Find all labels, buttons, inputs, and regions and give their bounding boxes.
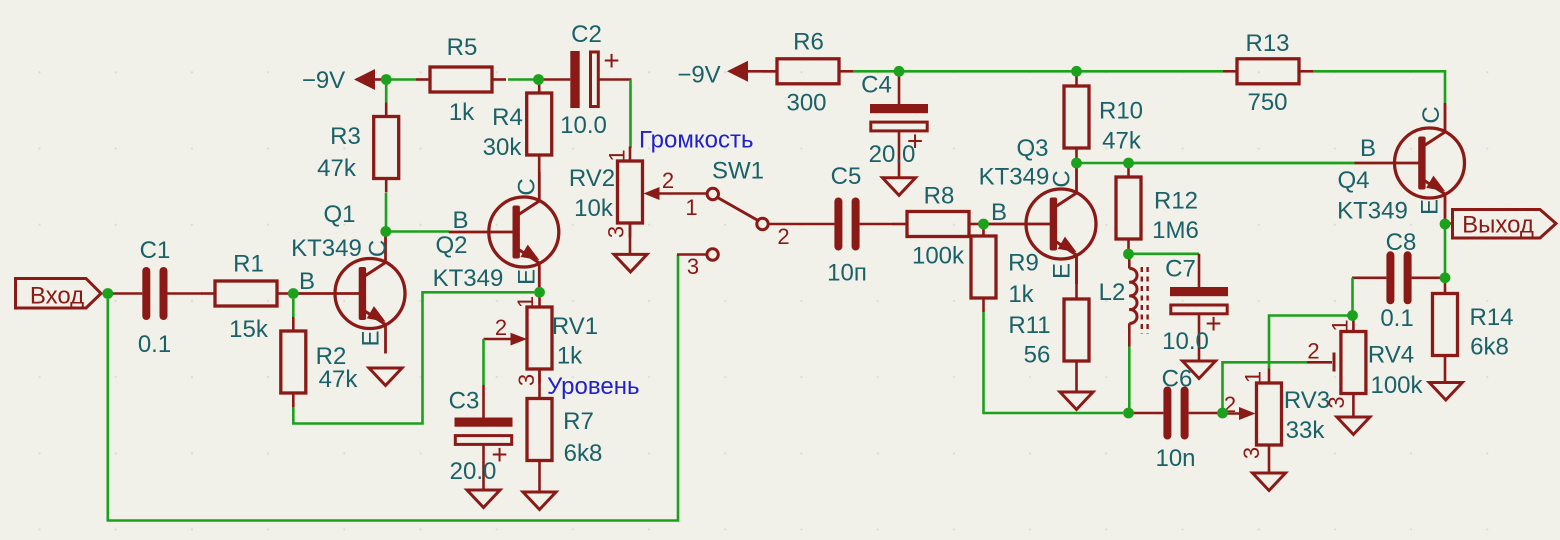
resistor R6 [763,70,777,73]
junction C4 rail [894,66,905,77]
wire L2 bottom [1128,347,1131,414]
svg-text:30k: 30k [483,134,523,161]
svg-text:56: 56 [1024,342,1051,369]
junction C6 left node [1123,408,1134,419]
svg-text:100k: 100k [1370,372,1423,399]
junction C6 right node [1217,408,1228,419]
wire R2 bottom to Q2 emitter [293,292,534,423]
wiper RV2 [644,187,660,200]
wire R2 top [292,299,295,317]
svg-text:33k: 33k [1286,417,1326,444]
svg-text:Q4: Q4 [1337,167,1369,194]
svg-text:C: C [1418,106,1445,123]
svg-text:3: 3 [687,254,699,279]
svg-text:6k8: 6k8 [1470,334,1509,361]
svg-text:20.0: 20.0 [450,458,497,485]
svg-text:6k8: 6k8 [564,440,603,467]
svg-text:1: 1 [685,195,697,220]
svg-text:10k: 10k [574,195,614,222]
wire Q2 collector to R4 [538,169,541,173]
resistor R12 [1127,163,1130,177]
svg-text:R1: R1 [233,251,264,278]
svg-text:0.1: 0.1 [138,331,171,358]
transistor Q4 [1395,128,1465,198]
svg-text:2: 2 [1307,339,1319,364]
svg-text:E: E [1417,199,1444,215]
potentiometer RV4 [1352,317,1355,332]
svg-text:R6: R6 [793,29,824,56]
svg-text:B: B [991,199,1007,226]
ground R7 [523,492,556,510]
ground R11 [1060,392,1093,410]
ground RV3 [1268,460,1271,474]
wire rail R10 to R13 [1077,70,1224,73]
svg-text:C4: C4 [861,72,892,99]
potentiometer RV1 [538,293,541,308]
resistor R3 [385,103,388,117]
svg-text:R14: R14 [1469,304,1513,331]
wire Q4 emitter down [1444,224,1447,278]
svg-text:RV4: RV4 [1368,342,1414,369]
svg-text:R12: R12 [1154,188,1198,215]
svg-text:KT349: KT349 [979,164,1050,191]
svg-text:3: 3 [1239,447,1264,459]
svg-text:R7: R7 [563,408,594,435]
potentiometer RV2 [629,147,632,162]
svg-text:RV2: RV2 [569,165,615,192]
capacitor C5 [800,223,834,226]
svg-text:20.0: 20.0 [869,141,916,168]
wire -9V to R5 [386,78,416,81]
svg-text:1k: 1k [449,99,475,126]
svg-text:B: B [1360,135,1376,162]
wire R9 bottom to C6 node [984,312,1124,413]
ground R14 [1429,383,1462,401]
junction node B Q1 [288,288,299,299]
junction Q2 emitter node [534,287,545,298]
wire R6 to C4 node [853,70,899,73]
svg-text:+: + [603,45,619,76]
svg-text:R4: R4 [492,104,523,131]
svg-text:3: 3 [514,374,539,386]
wire R5 to C2 node [508,78,539,81]
resistor R13 [1223,70,1237,73]
capacitor C7 [1198,254,1201,287]
wire C2 to RV2 [629,80,632,149]
wire R3 bottom [385,193,388,232]
resistor R8 [893,223,907,226]
svg-text:10.0: 10.0 [1162,328,1209,355]
global label Выход [1445,222,1453,225]
svg-text:10.0: 10.0 [560,112,607,139]
svg-text:−9V: −9V [677,62,720,89]
svg-text:3: 3 [1324,396,1349,408]
svg-text:KT349: KT349 [433,265,504,292]
potentiometer RV3 [1268,369,1271,384]
resistor R10 [1075,72,1078,86]
transistor Q1 [335,259,405,329]
wire RV1 wiper to C3 [482,339,485,385]
junction RV4 pin1 node [1347,310,1358,321]
ground Q1 emitter [369,368,402,386]
wire R13 to Q4 collector [1313,71,1445,103]
wiper RV3 [1239,407,1256,420]
svg-text:47k: 47k [319,366,359,393]
transistor Q2 [489,197,559,267]
junction Q4 emitter node [1440,219,1451,230]
svg-text:RV1: RV1 [552,313,598,340]
svg-text:0.1: 0.1 [1380,305,1413,332]
junction R12 bottom [1123,249,1134,260]
svg-text:2: 2 [495,315,507,340]
svg-text:Q2: Q2 [435,232,467,259]
wire input down-left [108,255,678,521]
wire rail to Q4 base green [1129,162,1356,165]
svg-text:47k: 47k [317,155,357,182]
svg-text:1k: 1k [557,343,583,370]
junction Q1 collector [380,226,391,237]
capacitor C4 [898,72,901,105]
svg-text:SW1: SW1 [712,158,764,185]
svg-text:10п: 10п [827,260,867,287]
svg-text:1: 1 [513,296,538,308]
resistor R14 [1444,278,1447,294]
svg-text:1: 1 [1328,319,1353,331]
svg-text:Выход: Выход [1462,212,1534,239]
svg-text:E: E [1049,263,1076,279]
svg-text:Q3: Q3 [1016,135,1048,162]
svg-text:750: 750 [1247,89,1287,116]
capacitor C2 [538,78,571,81]
junction R4 C2 node [533,74,544,85]
svg-text:2: 2 [777,224,789,249]
wire SW1 to C5 [768,223,800,226]
capacitor C3 [482,385,485,418]
ground C4 [898,164,901,178]
junction Q3 collector node [1071,158,1082,169]
svg-text:10n: 10n [1155,445,1195,472]
capacitor C1 [108,292,142,295]
inductor L2 [1128,254,1131,269]
svg-text:−9V: −9V [302,67,345,94]
wire rail C4 to R10 [899,70,1077,73]
svg-text:B: B [299,268,315,295]
resistor R2 [292,317,295,331]
svg-text:C6: C6 [1162,366,1193,393]
svg-text:2: 2 [662,168,674,193]
junction input node [102,288,113,299]
svg-text:C8: C8 [1386,229,1417,256]
svg-text:R5: R5 [447,34,478,61]
svg-text:C7: C7 [1165,256,1196,283]
svg-text:Громкость: Громкость [639,127,753,154]
svg-text:300: 300 [786,90,826,117]
svg-text:47k: 47k [1102,128,1142,155]
svg-text:1: 1 [605,149,630,161]
svg-text:E: E [514,269,541,285]
wiper RV1 [511,333,528,346]
ground RV4 [1352,408,1355,417]
resistor R9 [982,224,985,236]
wire C8 left down [1351,278,1354,316]
wire R12 bottom to C7 [1129,253,1200,256]
svg-text:R3: R3 [330,123,361,150]
resistor R4 [538,79,541,93]
transistor Q3 [1026,189,1096,259]
svg-text:R8: R8 [924,183,955,210]
svg-text:C3: C3 [449,388,480,415]
ground C3 [482,477,485,490]
svg-text:C2: C2 [571,21,602,48]
global label Вход [16,279,102,309]
resistor R5 [416,78,430,81]
wire Q1 collector to Q2 base [386,230,449,233]
wire Q3 collector rail to Q4 base [1077,162,1356,165]
svg-text:3: 3 [604,226,629,238]
junction Q3 base node [978,219,989,230]
ground C7 [1183,361,1216,379]
wire R3 top [385,80,388,103]
capacitor C6 [1129,412,1163,415]
resistor R7 [538,369,541,399]
junction C8 right node [1440,272,1451,283]
svg-text:Вход: Вход [30,283,84,310]
svg-text:R9: R9 [1008,250,1039,277]
junction R12 top [1123,158,1134,169]
svg-text:KT349: KT349 [1337,198,1408,225]
svg-text:Q1: Q1 [323,201,355,228]
wire RV3 pin1 to C8 node [1269,316,1353,369]
svg-text:Уровень: Уровень [547,373,639,400]
svg-text:C: C [1049,170,1076,187]
capacitor C8 [1352,276,1386,279]
svg-text:C: C [365,240,392,257]
junction R10 rail [1071,66,1082,77]
svg-text:C5: C5 [831,163,862,190]
svg-text:C: C [514,178,541,195]
wire RV4 wiper [1223,362,1308,413]
svg-text:15k: 15k [229,316,269,343]
resistor R11 [1075,255,1078,299]
svg-text:1M6: 1M6 [1152,217,1199,244]
svg-text:B: B [452,207,468,234]
svg-text:C1: C1 [140,237,171,264]
svg-text:R10: R10 [1099,98,1143,125]
svg-text:L2: L2 [1099,279,1126,306]
ground RV2 [629,223,632,254]
svg-text:E: E [358,330,385,346]
svg-text:1: 1 [1241,371,1266,383]
resistor R1 [201,292,215,295]
svg-text:R11: R11 [1008,312,1050,339]
svg-text:KT349: KT349 [291,235,362,262]
svg-text:1k: 1k [1008,281,1034,308]
svg-text:100k: 100k [912,243,965,270]
junction -9V left rail [381,74,392,85]
svg-text:R13: R13 [1245,30,1289,57]
wiper RV4 [1307,361,1332,364]
